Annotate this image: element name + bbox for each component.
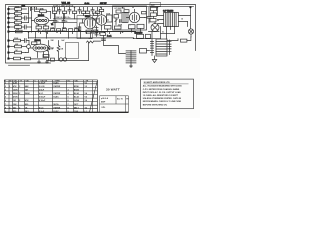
cathode resistor R9	[43, 25, 48, 32]
sheet border	[6, 5, 196, 64]
svg-text:UNLESS OTHERWISE STATED. CAPS: UNLESS OTHERWISE STATED. CAPS IN	[143, 97, 182, 100]
svg-text:1M: 1M	[25, 90, 28, 92]
ground G1	[38, 60, 41, 63]
svg-text:CH1: CH1	[22, 6, 26, 8]
comb component K7	[91, 7, 94, 14]
svg-text:OP.T: OP.T	[74, 104, 79, 106]
resistor row RB1	[50, 27, 55, 31]
capacitor C1	[25, 16, 32, 20]
svg-text:47K: 47K	[25, 99, 29, 102]
resistor R4	[10, 20, 29, 24]
input jack J2	[7, 13, 9, 15]
mid rail	[54, 18, 99, 20]
resistor R5	[10, 24, 25, 28]
resistor row RB5	[74, 27, 78, 31]
svg-text:p.B.G.A: p.B.G.A	[101, 97, 109, 100]
wire vertical G	[74, 14, 76, 19]
output tube V5	[127, 9, 145, 22]
resistor R18	[10, 50, 26, 54]
svg-text:47K .01 220K 1M: 47K .01 220K 1M	[31, 8, 45, 11]
tube V3 anode wires	[44, 48, 54, 57]
svg-text:AMP: AMP	[101, 101, 106, 104]
svg-text:220K: 220K	[15, 6, 20, 8]
wire speaker out	[149, 27, 161, 39]
svg-text:68K: 68K	[25, 86, 29, 88]
comb component K5	[73, 7, 77, 13]
comb component K10	[82, 7, 86, 15]
transformer T1	[158, 13, 191, 27]
resistor R17	[10, 44, 27, 48]
svg-text:1 25uF: 1 25uF	[39, 82, 46, 84]
comb component K2	[58, 7, 61, 14]
labels under lower rail	[51, 40, 65, 42]
title block	[100, 96, 129, 113]
resistor R29	[100, 33, 106, 36]
svg-text:220K: 220K	[13, 93, 18, 95]
rail joins	[29, 32, 91, 38]
capacitor C5	[120, 20, 131, 26]
ladder LD1	[95, 26, 98, 37]
comb component K9	[78, 7, 81, 13]
switch box SB1	[51, 58, 55, 61]
resistor R3	[10, 14, 25, 19]
input jack J6	[7, 31, 9, 33]
tube V1 envelope	[32, 13, 54, 25]
svg-text:8u: 8u	[157, 20, 159, 22]
svg-text:500K: 500K	[15, 24, 20, 26]
notes body	[143, 85, 183, 107]
speaker SP1	[151, 22, 159, 32]
resistor R15b	[93, 30, 97, 33]
coupling capacitor C3	[54, 14, 59, 29]
socket circles X2	[59, 58, 66, 61]
svg-text:MICROFARADS. CHECK H.T. LINE F: MICROFARADS. CHECK H.T. LINE FUSE	[143, 100, 182, 103]
potentiometer VR3	[57, 41, 64, 61]
svg-text:BEFORE SWITCHING ON.: BEFORE SWITCHING ON.	[143, 104, 168, 106]
PSU box column B5	[150, 19, 159, 23]
input jack J7	[7, 40, 9, 42]
resistor R6	[10, 29, 29, 33]
top supply bus	[9, 6, 194, 8]
notes heading	[144, 81, 189, 84]
input jack J1	[7, 8, 9, 10]
PSU box column B3	[151, 6, 157, 11]
resistor R19	[10, 57, 31, 60]
svg-text:15: 15	[181, 19, 183, 21]
svg-text:HT 300V 250: HT 300V 250	[115, 8, 126, 10]
svg-text:ALL VOLTAGES MEASURED WITH 200: ALL VOLTAGES MEASURED WITH 20000	[143, 85, 183, 88]
capacitor C6	[147, 17, 151, 24]
preamp enclosure	[77, 16, 93, 39]
PSU box column B4	[151, 11, 157, 19]
svg-text:ECC83: ECC83	[38, 15, 44, 17]
stepped wire to PSU	[104, 36, 126, 54]
ground G2	[46, 60, 49, 63]
wire stubs top-left	[31, 7, 58, 11]
svg-text:100K: 100K	[13, 90, 18, 92]
input jack J3	[7, 17, 9, 19]
ground G3	[130, 65, 133, 67]
svg-text:MN.T: MN.T	[74, 107, 80, 109]
bottom run wire	[31, 58, 47, 60]
comb component K1	[53, 7, 57, 13]
wire vertical C	[34, 7, 36, 11]
wire vertical D	[50, 11, 52, 18]
parts list table	[4, 80, 128, 112]
resistor R23b	[102, 25, 112, 32]
wire vertical A	[28, 7, 30, 22]
label row top-centre	[53, 4, 74, 7]
svg-text:PAPER: PAPER	[54, 92, 61, 95]
svg-text:500K: 500K	[25, 93, 30, 95]
svg-text:9 2uF: 9 2uF	[39, 111, 45, 113]
svg-text:EC83: EC83	[74, 90, 80, 92]
notes box	[141, 79, 194, 109]
mid rail labels	[56, 16, 71, 19]
cathode resistor R8	[36, 25, 41, 32]
svg-text:MICA: MICA	[54, 103, 60, 106]
transformer secondary taps	[167, 19, 184, 40]
feedback resistor R21	[87, 38, 101, 60]
tube V4 envelope	[94, 11, 109, 25]
svg-text:820: 820	[36, 25, 39, 27]
svg-text:EF86: EF86	[85, 16, 90, 18]
junction dots	[28, 6, 158, 39]
resistor row RB2	[57, 29, 61, 32]
box under V3	[43, 55, 49, 58]
terminal dot TD1	[190, 6, 192, 8]
input terminal bus	[8, 8, 10, 59]
svg-text:E.MAINS: E.MAINS	[135, 32, 144, 35]
capacitor C4	[25, 39, 30, 43]
power winding W1	[156, 39, 167, 56]
bias box B2	[137, 24, 144, 32]
wire vertical E	[54, 14, 56, 19]
svg-text:470K: 470K	[13, 96, 18, 99]
bus voltage labels	[37, 29, 67, 32]
mains lead	[134, 38, 161, 40]
comb component K8	[96, 7, 100, 13]
svg-text:47K: 47K	[13, 85, 17, 88]
table text	[5, 79, 89, 112]
comb component K4	[68, 7, 71, 14]
svg-text:1M: 1M	[13, 100, 16, 102]
svg-text:ELEC: ELEC	[54, 111, 60, 113]
resistor R20	[32, 42, 37, 45]
coupling capacitor C3b	[62, 14, 67, 29]
svg-text:30 WATT: 30 WATT	[106, 88, 120, 92]
diagonal slash	[90, 81, 98, 112]
svg-text:5 50uF: 5 50uF	[39, 97, 46, 99]
bus tick T1	[41, 32, 121, 34]
wire mid right	[161, 33, 175, 35]
svg-text:PAPER: PAPER	[54, 106, 61, 109]
tube V3 envelope	[31, 42, 49, 58]
svg-text:6 16uF: 6 16uF	[39, 100, 46, 102]
tone network box	[66, 43, 79, 59]
resistor row RB4	[69, 29, 73, 32]
grid rect RV1	[106, 14, 112, 23]
svg-text:220K: 220K	[14, 38, 19, 40]
svg-text:15 OHMS. ALL RESISTORS 1/2 WA: 15 OHMS. ALL RESISTORS 1/2 WATT	[143, 94, 179, 97]
socket circle X1	[27, 45, 31, 49]
capacitor C7	[102, 39, 106, 41]
capacitor C2	[25, 25, 32, 29]
svg-text:100K .05 470K 25u: 100K .05 470K 25u	[56, 16, 71, 19]
resistor R22	[99, 7, 103, 11]
resistor R15	[86, 30, 92, 33]
resistor R1	[10, 6, 27, 10]
resistor R16	[10, 38, 25, 42]
mid rail second	[53, 22, 77, 24]
pilot lamp LP1	[188, 29, 193, 37]
svg-text:2 0.05: 2 0.05	[39, 86, 45, 88]
wire vertical I	[80, 19, 83, 31]
svg-text:25u: 25u	[44, 25, 47, 27]
resistor R26	[142, 12, 147, 14]
wire right lower	[167, 39, 178, 41]
electrolytic C11	[140, 49, 150, 54]
wire join right	[187, 22, 189, 27]
input jack J8	[7, 46, 9, 48]
rectifier ladder TL2	[150, 32, 153, 56]
svg-text:W: W	[10, 80, 12, 82]
choke L1	[137, 34, 144, 38]
ground flag G4	[152, 56, 156, 63]
svg-text:10K: 10K	[13, 104, 17, 106]
resistor R2	[10, 11, 29, 15]
svg-text:.05: .05	[65, 21, 67, 23]
caption under border	[9, 64, 30, 66]
grid resistor R7	[35, 8, 51, 13]
lower rail	[29, 37, 134, 39]
wire vertical B	[31, 7, 33, 32]
svg-text:2.2K: 2.2K	[13, 82, 18, 84]
svg-text:Ear 75: Ear 75	[117, 99, 123, 101]
resistor R27	[146, 34, 151, 38]
resistor R28	[181, 37, 191, 42]
resistor row RB3	[62, 26, 67, 31]
secondary ladder TL3	[168, 40, 171, 55]
svg-text:1 mA: 1 mA	[107, 34, 112, 37]
svg-text:ELEC: ELEC	[54, 82, 60, 84]
input jack J5	[7, 26, 9, 28]
svg-text:.01 47K .1 220K .02 1M .: .01 47K .1 220K .02 1M .05	[53, 4, 74, 7]
title block fields	[101, 97, 129, 109]
bias box B1	[129, 25, 136, 32]
wire vertical J	[26, 41, 30, 53]
svg-text:8uF: 8uF	[62, 40, 65, 42]
svg-text:3 8uF: 3 8uF	[39, 90, 45, 92]
svg-text:INPUT 230V A.C. 50 C/S. OUTPUT: INPUT 230V A.C. 50 C/S. OUTPUT LOAD	[143, 91, 181, 94]
bottom rail long	[47, 60, 89, 62]
input jack J9	[7, 52, 9, 54]
potentiometer VR2	[47, 41, 54, 61]
comb component K3	[63, 7, 67, 13]
svg-text:4u 4u: 4u 4u	[85, 2, 90, 5]
label row upper-left	[31, 8, 45, 11]
svg-text:V1: V1	[51, 24, 53, 26]
label small right	[150, 2, 161, 6]
resistor R14	[78, 27, 81, 31]
comb component K6	[86, 7, 90, 13]
svg-text:3W HF: 3W HF	[100, 3, 107, 5]
smoothing ladder LD3	[126, 51, 136, 66]
driver stage box	[113, 6, 147, 30]
resistor R23	[93, 13, 97, 15]
wire vertical F	[64, 14, 66, 19]
svg-text:GZ34: GZ34	[74, 99, 80, 102]
svg-text:O.P.V. METER FROM CHASSIS. MA: O.P.V. METER FROM CHASSIS. MAINS	[143, 88, 180, 91]
input jack J4	[7, 22, 9, 24]
svg-text:230V 265V 285V 310V 32: 230V 265V 285V 310V 325V 340V	[37, 29, 67, 32]
wire vertical N	[158, 7, 191, 28]
HT bus	[9, 31, 136, 33]
svg-text:PAPER: PAPER	[54, 85, 61, 88]
svg-text:30 WATT AMPLIFIERS LTD: 30 WATT AMPLIFIERS LTD	[144, 81, 171, 84]
wire vertical M	[145, 7, 150, 17]
svg-text:ELEC: ELEC	[54, 97, 60, 99]
svg-text:25: 25	[57, 21, 59, 23]
svg-text:O.P TRANS: O.P TRANS	[163, 10, 174, 13]
svg-text:CHK: CHK	[74, 111, 79, 113]
tube V2 envelope	[80, 15, 99, 29]
input jack J10	[7, 58, 9, 60]
